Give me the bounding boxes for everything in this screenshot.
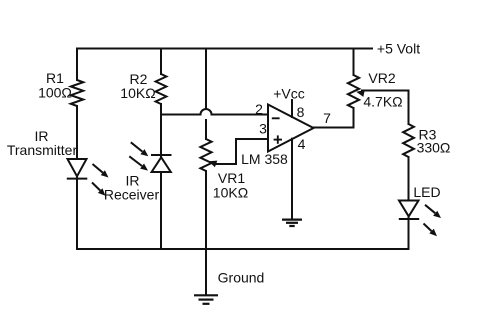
svg-text:4.7KΩ: 4.7KΩ <box>363 94 402 110</box>
svg-text:+5 Volt: +5 Volt <box>377 41 420 57</box>
svg-text:100Ω: 100Ω <box>38 85 72 101</box>
svg-text:7: 7 <box>323 110 331 126</box>
svg-text:330Ω: 330Ω <box>417 140 451 156</box>
svg-text:VR2: VR2 <box>368 70 395 86</box>
svg-text:10KΩ: 10KΩ <box>213 185 248 201</box>
svg-text:Ground: Ground <box>218 270 265 286</box>
svg-text:+Vcc: +Vcc <box>273 86 305 102</box>
svg-text:3: 3 <box>259 121 267 137</box>
svg-text:10KΩ: 10KΩ <box>120 85 155 101</box>
svg-text:8: 8 <box>297 104 305 120</box>
svg-text:Receiver: Receiver <box>104 187 160 203</box>
svg-text:Transmitter: Transmitter <box>7 142 78 158</box>
svg-text:LM 358: LM 358 <box>241 151 288 167</box>
svg-text:LED: LED <box>413 184 440 200</box>
svg-text:4: 4 <box>298 136 306 152</box>
svg-text:2: 2 <box>255 101 263 117</box>
